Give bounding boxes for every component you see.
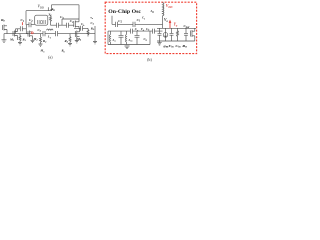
ground R1 (a): [18, 43, 22, 45]
capacitor Ca (b): [131, 29, 133, 34]
svg-text:VDD: VDD: [38, 5, 45, 10]
wire main row (a): [4, 33, 95, 35]
svg-text:(a): (a): [48, 56, 53, 60]
svg-text:M2: M2: [33, 37, 39, 42]
resistor R5 (a): [87, 28, 89, 36]
ground left (a): [2, 34, 7, 43]
capacitor Co (b): [158, 28, 162, 41]
svg-text:gmVo, Co, Ro: gmVo, Co, Ro: [162, 44, 188, 49]
current source Ib rail: [51, 5, 79, 22]
ground M2 (a): [31, 40, 35, 42]
inductor Lb (b): [163, 3, 164, 16]
model bottom rail (b): [157, 40, 187, 42]
svg-text:Ya: Ya: [174, 23, 178, 28]
crystal plates inside X1: [37, 20, 45, 24]
wire left drop (a): [25, 11, 27, 25]
svg-text:M5: M5: [40, 49, 46, 54]
wire row C1 (a): [16, 25, 27, 34]
transistor M2 (a): [26, 31, 32, 41]
svg-text:vo: vo: [91, 16, 94, 21]
capacitor C5 (a): [56, 31, 58, 36]
capacitor Cpar (b): [184, 28, 188, 41]
svg-text:CL: CL: [91, 21, 95, 26]
resistor R2 (a): [40, 34, 42, 44]
wire Vo node (b): [162, 16, 164, 28]
ground symbol left (b): [125, 46, 130, 49]
transistor M1 (a): [13, 29, 18, 40]
svg-text:C2: C2: [29, 18, 33, 23]
wire row2 (b): [108, 31, 163, 44]
resistor R1 (a): [19, 34, 21, 42]
svg-text:Cg: Cg: [144, 37, 148, 42]
svg-text:RL: RL: [91, 26, 95, 31]
svg-text:La: La: [112, 38, 117, 43]
wire row1 (b): [112, 16, 163, 27]
svg-text:Lb: Lb: [150, 9, 155, 14]
ground rail left (b): [108, 31, 150, 44]
svg-text:Lm: Lm: [128, 38, 133, 43]
svg-text:C1: C1: [137, 18, 141, 23]
svg-text:C1: C1: [21, 18, 25, 23]
svg-text:C4: C4: [38, 28, 42, 33]
node VDD rail (a): [26, 7, 52, 11]
svg-text:(b): (b): [147, 58, 152, 62]
svg-text:C1: C1: [142, 16, 145, 21]
wire drain tap (a): [62, 19, 79, 25]
red dashed boundary (b): [105, 2, 196, 53]
inductor La (b): [109, 31, 110, 44]
svg-text:C2: C2: [118, 19, 122, 24]
wire row right (a): [74, 26, 88, 31]
wire right drop (a): [94, 26, 96, 41]
svg-text:M1: M1: [9, 38, 14, 43]
inductor Lm (b): [125, 31, 126, 44]
red circle node (a): [31, 32, 33, 34]
svg-text:R6: R6: [62, 49, 66, 54]
ground model (b): [157, 41, 161, 45]
capacitor C2 (a): [26, 22, 34, 27]
resistor R4 (a): [69, 34, 71, 43]
svg-text:Vo: Vo: [164, 18, 168, 23]
red arrow Ya (b): [169, 22, 171, 28]
svg-text:VDD: VDD: [166, 4, 173, 9]
capacitor Cn (b): [135, 31, 140, 44]
ground right (a): [93, 42, 97, 44]
inductor L1 (a): [47, 29, 54, 30]
svg-text:Cb: Cb: [81, 22, 85, 27]
source gmVo (b): [165, 28, 167, 41]
capacitor Cx (b): [170, 28, 174, 41]
transistor M4 (a): [75, 28, 79, 40]
svg-text:X1: X1: [47, 13, 51, 18]
capacitor C4 (a): [43, 31, 45, 36]
resistor R3 (a): [50, 15, 52, 25]
transistor Mo (b): [187, 28, 195, 41]
ground R4 (a): [68, 44, 72, 46]
svg-text:M4: M4: [76, 37, 82, 42]
svg-text:R4: R4: [65, 39, 69, 44]
crystal box X1: [35, 15, 48, 25]
transistor Mb (a) left: [3, 25, 7, 34]
svg-text:C5: C5: [70, 19, 74, 24]
svg-text:Ib: Ib: [51, 7, 55, 12]
svg-text:R2: R2: [43, 39, 47, 44]
capacitor Cb (b): [153, 29, 155, 34]
svg-text:R1: R1: [23, 38, 26, 43]
svg-text:L1: L1: [47, 35, 51, 40]
ground R2 (a): [39, 44, 43, 46]
resistor Ro (b): [177, 28, 179, 41]
transistor M3 (a): [74, 21, 79, 29]
svg-text:Rb: Rb: [1, 18, 5, 23]
red arrow node (a): [21, 22, 23, 25]
wire row C3 (a): [51, 23, 74, 28]
svg-text:On-Chip Osc: On-Chip Osc: [108, 10, 141, 15]
ground M4 (a): [75, 41, 79, 43]
model top rail (b): [157, 27, 196, 29]
capacitor Cm (b): [119, 31, 124, 44]
